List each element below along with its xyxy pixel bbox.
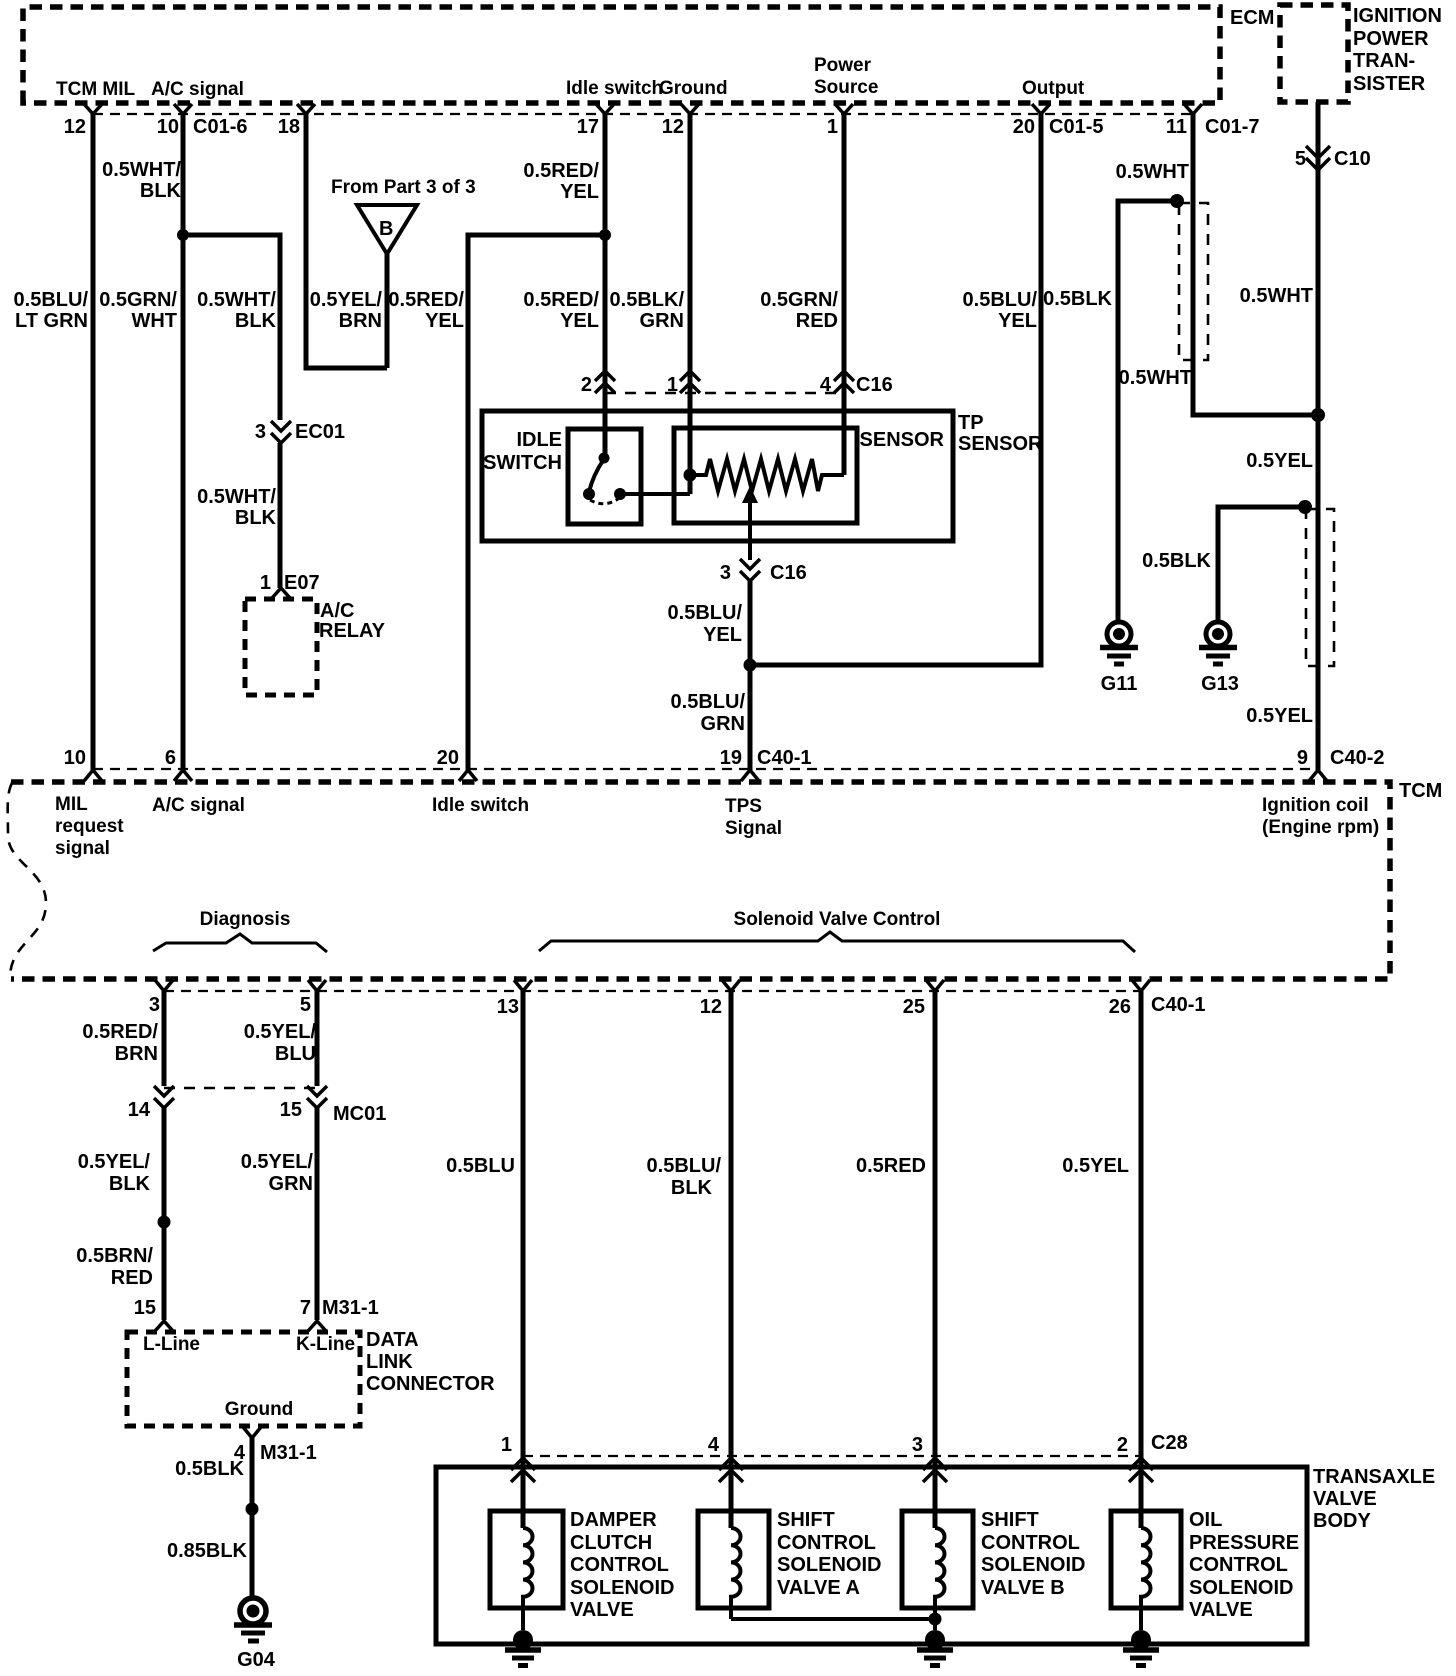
wire pin10 ECM to pin6 TCM [181, 113, 186, 770]
svg-text:18: 18 [278, 116, 300, 138]
svg-text:2: 2 [581, 374, 592, 396]
svg-text:Power: Power [814, 55, 872, 76]
svg-text:M31-1: M31-1 [260, 1442, 317, 1464]
svg-text:VALVE: VALVE [1313, 1488, 1377, 1510]
junction node shared ground [929, 1613, 942, 1626]
idle switch arm [589, 459, 604, 492]
svg-text:CONTROL: CONTROL [981, 1532, 1080, 1554]
svg-text:C01-5: C01-5 [1049, 116, 1103, 138]
svg-text:15: 15 [134, 1297, 156, 1319]
A/C relay dashed box [245, 599, 317, 695]
svg-text:14: 14 [128, 1099, 151, 1121]
svg-text:From Part 3 of 3: From Part 3 of 3 [331, 177, 476, 198]
svg-text:K-Line: K-Line [296, 1334, 355, 1355]
svg-text:CONTROL: CONTROL [1189, 1554, 1288, 1576]
svg-text:DAMPER: DAMPER [570, 1509, 657, 1531]
svg-text:Ground: Ground [659, 78, 728, 99]
svg-text:CONNECTOR: CONNECTOR [366, 1373, 495, 1395]
idle switch right node [614, 488, 626, 500]
pin 20 C01-5 connector [1032, 104, 1050, 114]
svg-text:OIL: OIL [1189, 1509, 1222, 1531]
junction node G13 tap [1298, 500, 1312, 514]
wire pin17 idle switch 0.5RED/YEL [603, 113, 608, 455]
svg-text:Output: Output [1022, 78, 1085, 99]
svg-text:request: request [55, 816, 124, 837]
wire solenoid A to shared ground [731, 1617, 935, 1621]
svg-text:CONTROL: CONTROL [570, 1554, 669, 1576]
svg-text:A/C signal: A/C signal [152, 795, 245, 816]
pin 12 ground connector [681, 104, 699, 114]
svg-text:SHIFT: SHIFT [777, 1509, 835, 1531]
wire DLC ground 0.5BLK [250, 1438, 255, 1598]
wire TPS signal 0.5BLU/YEL [748, 581, 753, 770]
connector C10 pin 5 [1306, 146, 1330, 170]
svg-text:A/C: A/C [320, 600, 354, 622]
svg-text:B: B [379, 218, 393, 240]
DLC pin 15 connector [155, 1321, 173, 1331]
connector C28 row dashed line [523, 1455, 1141, 1457]
svg-text:0.5RED/: 0.5RED/ [523, 160, 599, 182]
svg-text:BLK: BLK [671, 1177, 713, 1199]
svg-text:0.5WHT/: 0.5WHT/ [197, 289, 276, 311]
svg-text:C40-1: C40-1 [1151, 994, 1205, 1016]
svg-text:BODY: BODY [1313, 1510, 1371, 1532]
svg-text:G13: G13 [1201, 673, 1239, 695]
shift solenoid A box [698, 1511, 769, 1608]
connector C16 row dashed line [605, 392, 844, 395]
wire TCM pin26 to solenoid 0.5YEL [1139, 991, 1144, 1528]
svg-text:GRN: GRN [269, 1173, 313, 1195]
svg-text:0.5BLU/: 0.5BLU/ [963, 289, 1038, 311]
svg-text:11: 11 [1166, 116, 1187, 138]
resistor TP sensor [690, 459, 844, 491]
svg-text:YEL: YEL [703, 624, 742, 646]
svg-text:BLK: BLK [109, 1173, 151, 1195]
TCM pin 19 C40-1 connector [741, 770, 759, 781]
TP sensor outer box [482, 411, 953, 541]
wire idle switch output [620, 492, 690, 496]
svg-text:0.5YEL/: 0.5YEL/ [78, 1151, 151, 1173]
svg-text:0.85BLK: 0.85BLK [167, 1540, 248, 1562]
wire K-line 0.5YEL/GRN [315, 1108, 320, 1320]
svg-text:SOLENOID: SOLENOID [1189, 1577, 1293, 1599]
svg-text:3: 3 [912, 1434, 923, 1456]
ground solenoid B [925, 1630, 945, 1650]
svg-text:YEL: YEL [560, 310, 599, 332]
wire pin1 power source 0.5GRN/RED [842, 113, 847, 475]
svg-text:0.5WHT: 0.5WHT [1119, 367, 1192, 389]
svg-text:3: 3 [149, 994, 160, 1016]
svg-text:0.5BLU/: 0.5BLU/ [668, 602, 743, 624]
svg-text:BRN: BRN [115, 1043, 158, 1065]
data link connector dashed box [127, 1332, 360, 1426]
connector EC01 pin 3 [271, 421, 291, 443]
svg-text:Idle switch: Idle switch [566, 78, 663, 99]
svg-text:VALVE: VALVE [570, 1599, 634, 1621]
wire TCM pin5 diagnosis 0.5YEL/BLU [315, 991, 320, 1086]
svg-text:0.5WHT/: 0.5WHT/ [102, 159, 181, 181]
svg-text:12: 12 [64, 116, 86, 138]
svg-text:3: 3 [255, 421, 266, 443]
TCM dashed box [11, 782, 1390, 979]
ground G13 [1206, 622, 1230, 646]
svg-text:A/C signal: A/C signal [151, 79, 244, 100]
idle switch box [568, 429, 641, 524]
ECM dashed box [23, 7, 1220, 103]
svg-text:TRAN-: TRAN- [1353, 50, 1415, 72]
connector MC01 pin 15 [307, 1086, 327, 1108]
svg-text:17: 17 [577, 116, 599, 138]
pin 12 C01-6 connector [84, 104, 102, 114]
svg-text:VALVE A: VALVE A [777, 1577, 860, 1599]
svg-text:DATA: DATA [366, 1329, 419, 1351]
svg-text:4: 4 [820, 374, 832, 396]
svg-text:5: 5 [300, 994, 311, 1016]
svg-text:BRN: BRN [339, 310, 382, 332]
svg-text:C16: C16 [770, 562, 807, 584]
svg-text:YEL: YEL [998, 310, 1037, 332]
svg-text:E07: E07 [284, 572, 320, 594]
svg-text:0.5WHT/: 0.5WHT/ [197, 486, 276, 508]
svg-text:Signal: Signal [725, 818, 782, 839]
svg-text:0.5RED/: 0.5RED/ [388, 289, 464, 311]
svg-text:TCM MIL: TCM MIL [56, 79, 136, 100]
svg-text:TRANSAXLE: TRANSAXLE [1313, 1466, 1435, 1488]
svg-text:SENSOR: SENSOR [860, 429, 945, 451]
junction node pin11 joins C10 wire [1311, 408, 1325, 422]
wire L-line 0.5YEL/BLK [162, 1108, 167, 1320]
svg-text:MIL: MIL [55, 794, 88, 815]
svg-text:GRN: GRN [640, 310, 684, 332]
svg-text:1: 1 [827, 116, 838, 138]
junction node L-line [158, 1216, 171, 1229]
idle switch left node [583, 488, 595, 500]
svg-text:LT GRN: LT GRN [15, 310, 88, 332]
svg-text:1: 1 [501, 1434, 512, 1456]
svg-text:0.5WHT: 0.5WHT [1116, 161, 1189, 183]
svg-text:0.5YEL: 0.5YEL [1062, 1155, 1129, 1177]
svg-text:SENSOR: SENSOR [958, 433, 1043, 455]
svg-text:C01-6: C01-6 [193, 116, 247, 138]
wire TCM pin3 diagnosis 0.5RED/BRN [162, 991, 167, 1086]
svg-text:2: 2 [1117, 1434, 1128, 1456]
svg-text:CLUTCH: CLUTCH [570, 1532, 652, 1554]
svg-text:0.5RED: 0.5RED [856, 1155, 926, 1177]
wire pin18 0.5YEL/BRN [306, 113, 387, 368]
svg-text:12: 12 [662, 116, 684, 138]
svg-text:0.5YEL: 0.5YEL [1246, 450, 1313, 472]
wire pin12 ECM to pin10 TCM 0.5BLU/LT GRN [91, 113, 96, 770]
junction node on A/C signal wire [177, 229, 189, 241]
svg-text:10: 10 [157, 116, 179, 138]
svg-text:BLK: BLK [140, 180, 182, 202]
TCM pin 10 connector [84, 770, 102, 781]
idle switch contact top node [599, 453, 610, 464]
svg-text:CONTROL: CONTROL [777, 1532, 876, 1554]
svg-text:0.5BLK: 0.5BLK [1043, 288, 1112, 310]
ground G04 [240, 1598, 266, 1624]
connector C16 pin 3 [740, 559, 760, 581]
sensor box [674, 428, 857, 523]
wire TPS to ECM output pin 20 [750, 113, 1041, 665]
svg-text:BLK: BLK [235, 507, 277, 529]
svg-text:LINK: LINK [366, 1351, 413, 1373]
pin 17 connector [596, 104, 614, 114]
svg-text:RELAY: RELAY [319, 620, 386, 642]
wiper arrow [748, 497, 752, 560]
svg-text:9: 9 [1297, 747, 1308, 769]
svg-text:Idle switch: Idle switch [432, 795, 529, 816]
svg-text:SISTER: SISTER [1353, 73, 1426, 95]
svg-text:PRESSURE: PRESSURE [1189, 1532, 1299, 1554]
pin 1 power source connector [835, 104, 853, 114]
shield dashed box lower [1306, 509, 1334, 666]
svg-text:G11: G11 [1101, 673, 1138, 695]
svg-text:0.5WHT: 0.5WHT [1240, 285, 1313, 307]
svg-text:SOLENOID: SOLENOID [777, 1554, 881, 1576]
svg-text:YEL: YEL [560, 181, 599, 203]
svg-text:SOLENOID: SOLENOID [981, 1554, 1085, 1576]
wire G13 ground 0.5BLK [1218, 507, 1310, 622]
wire G11 ground 0.5BLK [1118, 201, 1177, 622]
thin dashed pin row line TCM bottom [164, 990, 1141, 992]
connector C16 pin 2 [595, 371, 615, 393]
TCM pin 9 C40-2 connector [1309, 770, 1327, 781]
svg-text:M31-1: M31-1 [322, 1297, 379, 1319]
svg-text:YEL: YEL [425, 310, 464, 332]
svg-text:0.5GRN/: 0.5GRN/ [99, 289, 177, 311]
damper clutch solenoid coil [523, 1528, 533, 1630]
svg-text:(Engine rpm): (Engine rpm) [1262, 817, 1379, 838]
svg-text:Solenoid Valve Control: Solenoid Valve Control [734, 909, 941, 930]
svg-text:C40-1: C40-1 [757, 747, 811, 769]
connector C28 pin 1 [511, 1458, 535, 1482]
junction node TPS [744, 659, 757, 672]
svg-text:0.5RED/: 0.5RED/ [523, 289, 599, 311]
DLC pin 4 M31-1 connector [243, 1427, 261, 1438]
svg-text:20: 20 [437, 747, 459, 769]
svg-text:C40-2: C40-2 [1330, 747, 1384, 769]
svg-text:0.5BLU/: 0.5BLU/ [14, 289, 89, 311]
svg-text:0.5RED/: 0.5RED/ [82, 1021, 158, 1043]
svg-text:G04: G04 [237, 1649, 276, 1671]
svg-text:13: 13 [497, 996, 519, 1018]
shift solenoid B coil [935, 1528, 945, 1630]
connector C16 pin 1 [680, 371, 700, 393]
connector C28 pin 2 [1129, 1458, 1153, 1482]
wire branch to A/C relay 0.5WHT/BLK [183, 235, 280, 420]
thin dashed pin row line TCM top [93, 768, 1318, 770]
shift solenoid B box [902, 1511, 973, 1608]
wire TCM pin12 to solenoid 0.5BLU/BLK [729, 991, 734, 1528]
svg-text:0.5BLU: 0.5BLU [446, 1155, 515, 1177]
svg-text:15: 15 [280, 1099, 302, 1121]
TCM wavy left edge [8, 783, 46, 978]
TCM pin 5 connector [308, 980, 326, 991]
svg-text:4: 4 [708, 1434, 720, 1456]
connector MC01 pin 14 [154, 1086, 174, 1108]
svg-text:SHIFT: SHIFT [981, 1509, 1039, 1531]
oil pressure solenoid coil [1141, 1528, 1151, 1630]
DLC pin 7 M31-1 connector [308, 1321, 326, 1331]
svg-text:C01-7: C01-7 [1205, 116, 1259, 138]
TCM pin 25 connector [926, 980, 944, 991]
svg-text:C10: C10 [1334, 148, 1371, 170]
connector MC01 row dashed line [164, 1087, 317, 1090]
svg-text:EC01: EC01 [295, 421, 345, 443]
junction node ground wire [246, 1503, 259, 1516]
svg-text:1: 1 [667, 374, 678, 396]
svg-text:RED: RED [111, 1267, 153, 1289]
thin dashed pin row line under ECM [93, 113, 1193, 115]
svg-text:C16: C16 [856, 374, 893, 396]
TCM pin 20 connector [459, 770, 477, 781]
svg-text:Ignition coil: Ignition coil [1262, 795, 1369, 816]
svg-text:26: 26 [1109, 996, 1131, 1018]
svg-text:0.5YEL/: 0.5YEL/ [244, 1021, 317, 1043]
connector C28 pin 3 [923, 1458, 947, 1482]
svg-text:IDLE: IDLE [516, 429, 562, 451]
svg-text:6: 6 [165, 747, 176, 769]
junction node G11 tap [1170, 194, 1184, 208]
svg-text:7: 7 [300, 1297, 311, 1319]
svg-text:0.5BLK/: 0.5BLK/ [610, 289, 685, 311]
svg-text:0.5GRN/: 0.5GRN/ [760, 289, 838, 311]
svg-text:0.5BLK: 0.5BLK [1142, 550, 1211, 572]
svg-text:ECM: ECM [1230, 7, 1274, 29]
svg-text:0.5YEL: 0.5YEL [1246, 705, 1313, 727]
wire TCM pin25 to solenoid 0.5RED [933, 991, 938, 1528]
transaxle valve body box [436, 1467, 1307, 1644]
svg-text:12: 12 [700, 996, 722, 1018]
svg-text:0.5BLU/: 0.5BLU/ [671, 691, 746, 713]
svg-text:20: 20 [1013, 116, 1035, 138]
ground solenoid oil [1131, 1630, 1151, 1650]
connector C16 pin 4 [834, 371, 854, 393]
svg-text:25: 25 [903, 996, 925, 1018]
wire branch idle switch to TCM pin20 0.5RED/YEL [468, 235, 605, 770]
svg-text:L-Line: L-Line [143, 1334, 200, 1355]
wire EC01 to A/C relay 0.5WHT/BLK [278, 443, 283, 588]
svg-text:Ground: Ground [225, 1399, 294, 1420]
svg-text:Diagnosis: Diagnosis [200, 909, 291, 930]
svg-text:0.5BLU/: 0.5BLU/ [647, 1155, 722, 1177]
junction node resistor left [684, 469, 697, 482]
svg-text:TPS: TPS [725, 796, 762, 817]
TCM pin 26 C40-1 connector [1132, 980, 1150, 991]
svg-text:Source: Source [814, 77, 878, 98]
svg-text:19: 19 [720, 747, 742, 769]
oil pressure solenoid box [1111, 1511, 1181, 1608]
pin 11 C01-7 connector [1184, 104, 1202, 114]
svg-text:BLK: BLK [235, 310, 277, 332]
svg-text:WHT: WHT [131, 310, 177, 332]
TCM pin 12 connector [722, 980, 740, 991]
shield dashed box upper [1179, 203, 1208, 360]
damper clutch solenoid box [490, 1511, 563, 1608]
wire pin12 ground 0.5BLK/GRN [688, 113, 693, 494]
wire ignition power transistor to C10 [1316, 102, 1321, 770]
svg-text:0.5BLK: 0.5BLK [175, 1458, 244, 1480]
svg-text:RED: RED [796, 310, 838, 332]
svg-text:0.5BRN/: 0.5BRN/ [76, 1245, 153, 1267]
shift solenoid A coil [731, 1528, 741, 1619]
connector C28 pin 4 [719, 1458, 743, 1482]
svg-text:MC01: MC01 [333, 1103, 386, 1125]
svg-text:SWITCH: SWITCH [483, 452, 562, 474]
ignition power transistor dashed box [1280, 5, 1348, 102]
svg-text:VALVE: VALVE [1189, 1599, 1253, 1621]
TCM pin 13 connector [514, 980, 532, 991]
svg-text:TP: TP [958, 412, 984, 434]
junction node on idle switch wire [599, 229, 611, 241]
pin 10 C01-6 connector [174, 104, 192, 114]
connector E07 pin 1 [272, 588, 290, 598]
svg-text:TCM: TCM [1399, 780, 1442, 802]
TCM pin 6 connector [174, 770, 192, 781]
svg-text:SOLENOID: SOLENOID [570, 1577, 674, 1599]
TCM pin 3 connector [155, 980, 173, 991]
svg-text:10: 10 [64, 747, 86, 769]
pin 18 connector [297, 104, 315, 114]
svg-text:BLU: BLU [275, 1043, 316, 1065]
svg-text:IGNITION: IGNITION [1353, 5, 1442, 27]
svg-text:C28: C28 [1151, 1432, 1188, 1454]
svg-text:5: 5 [1295, 148, 1306, 170]
svg-text:3: 3 [720, 562, 731, 584]
svg-text:GRN: GRN [701, 713, 745, 735]
svg-text:0.5YEL/: 0.5YEL/ [241, 1151, 314, 1173]
svg-text:0.5YEL/: 0.5YEL/ [310, 289, 383, 311]
wire TCM pin13 to solenoid 0.5BLU [521, 991, 526, 1528]
ground solenoid 1 [513, 1630, 533, 1650]
svg-text:VALVE B: VALVE B [981, 1577, 1065, 1599]
svg-text:1: 1 [260, 572, 271, 594]
idle switch dashed throw arc [590, 499, 618, 504]
svg-text:signal: signal [55, 838, 110, 859]
wire triangle B down [385, 254, 390, 368]
ground G11 [1107, 622, 1131, 646]
svg-text:POWER: POWER [1353, 28, 1429, 50]
wire pin11 C01-7 0.5WHT [1193, 113, 1318, 415]
